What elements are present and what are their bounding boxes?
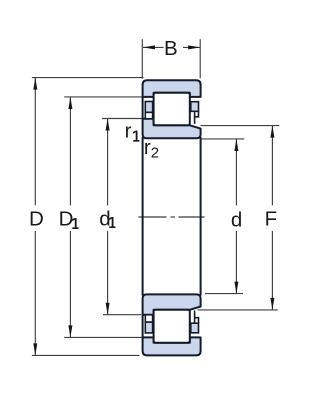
svg-text:d: d <box>231 208 242 231</box>
svg-text:D: D <box>29 207 44 230</box>
svg-text:d: d <box>99 207 110 230</box>
svg-text:r2: r2 <box>144 136 159 162</box>
svg-text:F: F <box>265 207 278 230</box>
svg-text:B: B <box>164 37 178 60</box>
svg-text:D: D <box>59 207 74 230</box>
svg-text:r: r <box>125 120 132 143</box>
